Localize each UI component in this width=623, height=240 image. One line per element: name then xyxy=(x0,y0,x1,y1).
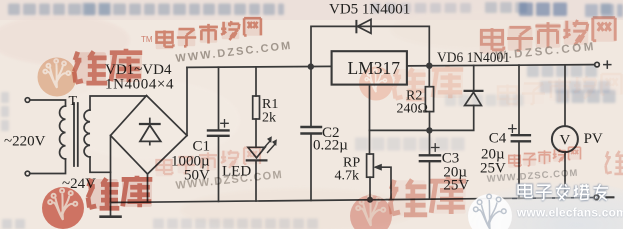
svg-text:240Ω: 240Ω xyxy=(397,102,428,117)
terminal input top xyxy=(25,98,30,103)
bridge inner diode symbol xyxy=(149,119,151,145)
resistor R1 body xyxy=(253,96,260,119)
capacitor C4 plus xyxy=(509,125,516,132)
faint salmon watermark behind LM317 xyxy=(359,66,622,107)
diode VD6 top lead xyxy=(473,65,475,91)
capacitor C4 plates xyxy=(512,135,530,141)
svg-text:2k: 2k xyxy=(262,111,276,126)
potentiometer RP bottom lead xyxy=(369,177,371,200)
wire secondary top to bridge top vertex xyxy=(90,96,147,110)
circuit drawing xyxy=(25,19,614,216)
terminal input bottom xyxy=(25,171,30,176)
red watermark bottom-center xyxy=(350,147,623,237)
capacitor C1 leads xyxy=(218,67,220,201)
transformer T primary winding xyxy=(60,106,66,159)
white elecfans watermark bottom-right xyxy=(466,180,623,240)
output terminal minus dash overlay xyxy=(606,196,615,198)
svg-text:LM317: LM317 xyxy=(348,58,401,78)
output terminal minus xyxy=(594,195,599,200)
adj node wire to VD6 xyxy=(370,106,474,131)
bleed-through blue texts sides and bottom xyxy=(1,65,616,229)
potentiometer RP wiper xyxy=(376,167,391,199)
ground rail xyxy=(111,198,594,203)
red watermark bottom-left xyxy=(42,148,284,229)
wire bridge bottom vertex to ground rail xyxy=(147,174,149,202)
LED lower lead xyxy=(255,160,257,201)
svg-text:T: T xyxy=(69,94,78,109)
potentiometer RP body xyxy=(367,154,374,177)
resistor R1 leads xyxy=(255,67,257,147)
svg-text:4.7k: 4.7k xyxy=(335,169,360,184)
voltmeter PV circle xyxy=(552,126,578,152)
resistor R2 body xyxy=(425,87,433,112)
ground bar xyxy=(101,215,121,218)
diode VD5 wire loop xyxy=(311,26,429,66)
svg-text:C1: C1 xyxy=(193,139,211,155)
capacitor C4 leads xyxy=(518,65,520,198)
transformer core xyxy=(74,103,78,166)
LM317 adj lead xyxy=(369,85,371,154)
capacitor C1 plates xyxy=(208,130,229,135)
svg-text:VD5 1N4001: VD5 1N4001 xyxy=(329,2,410,18)
svg-text:V: V xyxy=(560,133,571,149)
diode VD6 symbol xyxy=(465,90,483,92)
resistor R2 leads xyxy=(428,66,430,131)
bridge rectifier VD1-VD4 diamond xyxy=(111,96,188,175)
bleed-through blue text top strip xyxy=(8,2,623,17)
top rail input side xyxy=(187,66,332,67)
LED symbol xyxy=(248,147,265,158)
capacitor C1 plus xyxy=(221,120,228,127)
capacitor C3 plates xyxy=(420,155,440,161)
junction dots xyxy=(308,62,433,202)
wire primary top lead xyxy=(30,100,66,106)
red watermark top-right partial xyxy=(480,17,617,62)
LED arrows xyxy=(263,141,276,153)
svg-text:~220V: ~220V xyxy=(4,134,46,150)
wire secondary bottom to node A xyxy=(90,157,111,172)
svg-text:PV: PV xyxy=(584,131,603,147)
transformer T secondary winding xyxy=(84,110,90,157)
voltmeter PV leads xyxy=(564,65,566,198)
red watermark top-left xyxy=(38,18,294,96)
circuit labels xyxy=(4,2,603,194)
wire primary bottom lead xyxy=(30,159,66,174)
svg-text:0.22µ: 0.22µ xyxy=(313,138,348,154)
capacitor C2 leads xyxy=(310,67,312,201)
output terminal plus xyxy=(595,62,600,67)
regulator U1 LM317 box xyxy=(332,51,407,84)
diode VD5 symbol xyxy=(355,21,357,32)
capacitor C3 leads xyxy=(429,130,431,199)
top rail output side xyxy=(407,65,595,66)
wire bridge right vertex to top rail xyxy=(186,67,188,135)
wire bridge left vertex down to ground / node A xyxy=(110,136,112,217)
capacitor C2 plates xyxy=(302,127,322,134)
svg-text:www.elecfans.com: www.elecfans.com xyxy=(516,206,623,220)
svg-text:C4: C4 xyxy=(489,131,507,147)
svg-text:TM: TM xyxy=(141,35,153,44)
capacitor C3 plus xyxy=(432,144,439,151)
